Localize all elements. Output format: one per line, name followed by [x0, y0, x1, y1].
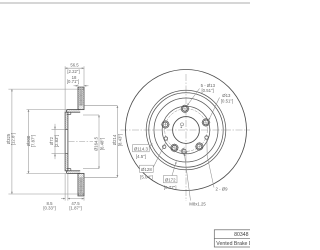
svg-text:2 - Ø9: 2 - Ø9: [216, 187, 229, 192]
svg-text:[2.22"]: [2.22"]: [67, 69, 79, 74]
svg-text:Ø172: Ø172: [165, 177, 176, 182]
svg-text:[0.51"]: [0.51"]: [201, 88, 213, 93]
svg-text:Ø114.3: Ø114.3: [134, 146, 149, 151]
svg-text:[0.71"]: [0.71"]: [67, 79, 79, 84]
svg-text:[0.33"]: [0.33"]: [43, 206, 55, 211]
svg-text:Ø72: Ø72: [49, 136, 54, 145]
svg-text:Vented Brake Disc: Vented Brake Disc: [216, 241, 250, 247]
svg-text:[5.04"]: [5.04"]: [140, 174, 153, 179]
svg-text:[0.51"]: [0.51"]: [221, 98, 233, 103]
svg-text:[4.5"]: [4.5"]: [136, 154, 146, 159]
svg-text:[12.8"]: [12.8"]: [11, 133, 16, 145]
svg-text:80348: 80348: [234, 232, 249, 238]
svg-text:Ø164.5: Ø164.5: [94, 136, 99, 151]
svg-text:[2.83"]: [2.83"]: [54, 135, 59, 147]
svg-text:[7.87"]: [7.87"]: [31, 135, 36, 147]
svg-text:Ø128: Ø128: [141, 167, 152, 172]
svg-text:[1.87"]: [1.87"]: [69, 206, 81, 211]
svg-text:[6.77"]: [6.77"]: [164, 185, 177, 190]
svg-text:Ø13: Ø13: [222, 93, 231, 98]
svg-text:M8x1.25: M8x1.25: [189, 202, 206, 207]
svg-text:[6.48"]: [6.48"]: [99, 138, 104, 150]
svg-text:56.5: 56.5: [70, 62, 79, 67]
svg-text:Ø214: Ø214: [112, 134, 117, 145]
svg-text:[8.43"]: [8.43"]: [118, 134, 123, 146]
